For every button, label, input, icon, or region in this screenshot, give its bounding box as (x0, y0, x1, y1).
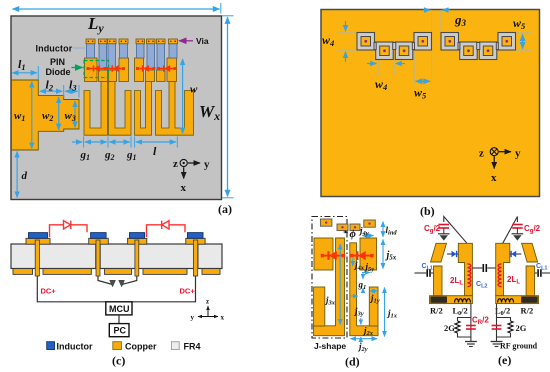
diode D1 over bar1 (50, 221, 88, 237)
shunt network left : wires (458, 304, 471, 342)
top copper pad S1 (26, 238, 50, 244)
J-shape unit U3 copper (135, 82, 152, 136)
pad P2 copper (99, 70, 108, 82)
blue diode left (447, 251, 458, 257)
L0/2 coil right (black) (498, 299, 514, 303)
PIN diode D1 (87, 65, 106, 71)
svg-text:(b): (b) (420, 204, 435, 218)
dimension j2x (361, 318, 374, 343)
via chain right group : upper square 1 (441, 33, 459, 51)
dimension g3 top (423, 10, 467, 28)
pad P1 copper (85, 58, 98, 82)
ground lead from via V2 with arrow (98, 276, 113, 286)
ground symbol right bottom (491, 342, 503, 347)
label j4x (353, 258, 365, 272)
top copper pad S2 (89, 238, 109, 244)
pad P7 copper (157, 70, 166, 82)
svg-text:MCU: MCU (109, 304, 130, 314)
dimension w3 (65, 101, 76, 128)
svg-text:(e): (e) (498, 353, 511, 367)
via chain right group : upper square 2 (498, 33, 516, 51)
svg-text:DC+: DC+ (180, 287, 196, 296)
via chain left group : lower square 1 (376, 42, 394, 60)
left outer tilted bar copper (431, 243, 447, 262)
left tall bar copper (d) with J bottom (314, 238, 345, 336)
resistor 2G left (455, 321, 460, 333)
svg-text:y: y (515, 148, 521, 160)
svg-text:(a): (a) (218, 202, 232, 216)
label phi with arrows (344, 228, 357, 240)
ground lead from via V3 with arrow (122, 276, 137, 286)
svg-text:x: x (491, 172, 497, 184)
via chain left group : upper square 2 (414, 33, 432, 51)
MCU box (106, 302, 132, 315)
via V2 (96, 240, 100, 276)
legend copper swatch (113, 342, 157, 352)
inductor chip L4 (119, 39, 128, 58)
label Via with purple arrow (179, 36, 209, 46)
via cap C3 (350, 224, 360, 231)
dimension d (17, 152, 27, 198)
dimension j3x (324, 244, 340, 325)
svg-text:Copper: Copper (125, 342, 157, 352)
left outer vertical bar copper down to bottom (434, 266, 443, 296)
svg-text:PIN: PIN (50, 57, 65, 67)
left bottom bar copper (430, 296, 473, 304)
inductor chip L8 with via (169, 39, 178, 58)
top copper pad S4 (186, 238, 205, 244)
pad P8 copper (167, 58, 177, 82)
dimension j1y (369, 291, 380, 305)
dimension w5 bottom (414, 81, 430, 100)
capacitor CR/2 right (492, 326, 502, 330)
ground plane copper (b) (321, 10, 540, 197)
via chain right group : lower square 1 (460, 42, 478, 60)
capacitor Cg/2 left (439, 225, 450, 234)
dimension w1 (14, 82, 32, 149)
dimension w5 top right (513, 16, 526, 49)
svg-text:RF ground: RF ground (500, 342, 538, 351)
inductor chip on S3 (130, 233, 145, 239)
shunt network right : wires (497, 304, 511, 342)
DC+ wire right (132, 276, 196, 302)
inductor chip L7 (157, 39, 166, 70)
right outer tilted bar copper (522, 243, 538, 262)
svg-text:y: y (191, 314, 195, 322)
right outer vertical bar copper (526, 266, 535, 296)
via chain right group : lower square 2 (479, 42, 497, 60)
J-shape unit U1 copper (84, 82, 108, 136)
substrate FR4 board (a) (11, 16, 222, 200)
dimension l1 (13, 57, 39, 80)
svg-text:(c): (c) (112, 354, 125, 368)
dimension l_ind (383, 222, 397, 237)
L0/2 coil left (black) (455, 299, 471, 303)
top feed wire right (503, 217, 518, 244)
ground symbol below Cg/2 left (438, 234, 450, 241)
svg-text:ϕ: ϕ (350, 228, 357, 240)
dimension j3y (351, 296, 364, 318)
inductor chip on S1 (29, 233, 48, 239)
right inner bar copper (496, 243, 510, 295)
axis panel a : z out of plane, y right, x down (173, 158, 210, 194)
svg-text:Inductor: Inductor (36, 44, 73, 54)
dimension Wx arrow (222, 16, 234, 198)
inductor chip L1 (86, 39, 95, 58)
dimension j4y (358, 226, 374, 238)
pad P6 copper (146, 70, 155, 82)
dimension j5x (383, 240, 397, 269)
via chain left group : lower square 2 (395, 42, 413, 60)
svg-text:x: x (181, 182, 187, 194)
connecting bridges of via chain (374, 43, 498, 50)
left inner bar copper (top block plus column) (458, 243, 472, 295)
green dashed highlight box around D1 (84, 61, 109, 78)
via cap C1 (320, 219, 332, 226)
PIN diode D2 (106, 65, 125, 71)
feed staircase w1 w2 w3 copper (12, 80, 80, 150)
inductor chip L2 (99, 39, 108, 70)
top feed wire left (444, 217, 467, 244)
right pad copper (d) (360, 238, 377, 270)
right bottom bar copper (496, 296, 539, 304)
PIN diode DR (d) (351, 251, 373, 260)
DC+ wire left (37, 276, 106, 302)
PIN diode D3 (137, 65, 156, 71)
dimension g1 (d) (358, 272, 367, 293)
blue diode right (510, 251, 522, 257)
svg-text:d: d (22, 170, 28, 182)
svg-text:R/2: R/2 (521, 306, 534, 316)
pad P3 copper (109, 70, 117, 82)
svg-text:2G: 2G (516, 323, 527, 333)
capacitor CR/2 left (466, 326, 476, 330)
FR4 substrate cross-section (11, 244, 222, 269)
legend FR4 swatch (171, 342, 200, 352)
PIN diode DL (d) (321, 251, 344, 260)
svg-text:z: z (206, 298, 209, 306)
bottom copper strips (13, 269, 220, 275)
PIN diode D4 (158, 65, 177, 71)
svg-text:Inductor: Inductor (57, 342, 93, 352)
left J-shape left bar copper (314, 287, 325, 326)
dimension w2 (42, 97, 59, 130)
dimension w (183, 59, 198, 134)
svg-text:w: w (190, 84, 198, 96)
diode D2 over bar2 (mirrored) (147, 221, 186, 237)
svg-text:Diode: Diode (46, 67, 71, 77)
pad P4 copper (119, 58, 129, 82)
dimension j2y (351, 339, 378, 353)
right J-shape right bar copper (369, 287, 378, 326)
top copper pad S3 (128, 238, 147, 244)
PC box (109, 324, 129, 337)
capacitor CL1 left edge (415, 269, 434, 277)
axis panel b : z into plane, y right, x down (479, 148, 521, 185)
extension lines (b) (338, 10, 531, 85)
via cap C2 (337, 224, 348, 231)
svg-text:z: z (173, 158, 178, 170)
center thin bar copper with right J bottom (350, 243, 378, 336)
svg-text:FR4: FR4 (184, 342, 201, 352)
svg-text:Via: Via (196, 36, 209, 46)
label PIN Diode with green arrow (46, 57, 83, 77)
dimension w4 left vertical (322, 21, 346, 62)
J-shape unit U4 copper with termination stub (156, 82, 194, 136)
dash-dot unit-cell box (312, 217, 347, 339)
capacitor CL1 right edge (535, 269, 550, 277)
svg-text:R/2: R/2 (430, 306, 443, 316)
via V4 (193, 240, 197, 276)
inductor chip L3 (108, 39, 117, 70)
svg-text:z: z (479, 148, 484, 160)
svg-text:PC: PC (114, 326, 127, 336)
legend inductor swatch (47, 342, 93, 352)
dimension Ly arrow (13, 3, 221, 14)
ground symbol below Cg/2 right (512, 234, 524, 241)
inductor chip L5 (136, 39, 145, 58)
via V3 (135, 240, 139, 276)
via chain left group : upper square 1 (357, 33, 375, 51)
dimension l3 (65, 78, 79, 98)
MCU to PC wire (118, 315, 120, 324)
pad P5 copper (135, 58, 144, 82)
capacitor Cg/2 right (512, 225, 523, 234)
coil 2LL right (red) (498, 264, 501, 287)
R/2 dark block left (431, 297, 447, 303)
svg-text:(d): (d) (345, 355, 360, 369)
capacitor CL2 center (472, 264, 495, 272)
ground symbol left bottom (465, 342, 477, 347)
via V1 (35, 240, 39, 276)
substrate gap slits (96, 244, 199, 269)
dimension w4 bottom (367, 64, 405, 93)
resistor 2G right (508, 321, 513, 333)
J-shape unit U2 copper (mirrored) (109, 82, 132, 136)
svg-text:2G: 2G (444, 323, 455, 333)
svg-text:DC+: DC+ (41, 287, 57, 296)
inductor chip on S2 (91, 233, 107, 239)
svg-text:J-shape: J-shape (314, 341, 346, 351)
axis panel c : z up, y left, x right (191, 298, 225, 322)
dimension row g1 g2 g1 l (72, 137, 177, 148)
svg-text:y: y (204, 159, 210, 171)
inductor chip L6 (147, 39, 156, 70)
label Inductor with leader (36, 44, 86, 54)
left pad copper (d) (314, 238, 333, 270)
inductor chip on S4 (187, 233, 203, 239)
svg-text:x: x (221, 314, 225, 322)
via cap C4 (364, 220, 376, 227)
dimension j1x (385, 288, 398, 337)
dimension l2 (40, 78, 64, 98)
coil 2LL left (red) (468, 264, 471, 287)
R/2 dark block right (522, 297, 538, 303)
label j5y (362, 262, 374, 274)
